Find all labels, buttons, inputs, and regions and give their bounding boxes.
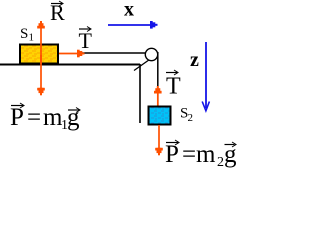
force arrow P1 (weight of S1, down): [37, 55, 45, 95]
svg-text:x: x: [124, 0, 134, 21]
force arrow R (normal reaction, up): [37, 21, 45, 64]
svg-text:1: 1: [29, 32, 35, 44]
svg-text:=: =: [27, 104, 41, 131]
wire: horizontal string from S1 to pulley: [78, 52, 146, 54]
svg-text:2: 2: [217, 155, 224, 170]
svg-text:m: m: [196, 141, 216, 168]
label T vector (on S2): [166, 70, 181, 100]
svg-text:T: T: [79, 28, 93, 53]
wire: vertical string from pulley to S2: [157, 52, 159, 107]
svg-text:P: P: [10, 104, 24, 131]
table top surface: [0, 64, 140, 66]
formula P = m2 g (weight of S2): [165, 140, 237, 170]
block S2: [149, 107, 171, 125]
svg-text:T: T: [166, 74, 181, 100]
formula P = m1 g (weight of S1): [10, 103, 80, 133]
label R vector: [50, 0, 65, 25]
force arrow T on S2 (tension, up): [154, 86, 162, 106]
svg-text:z: z: [190, 49, 199, 71]
label T vector (top): [79, 27, 93, 54]
axis z (blue): [190, 42, 209, 111]
svg-text:P: P: [165, 141, 179, 168]
svg-text:m: m: [43, 104, 63, 131]
svg-text:g: g: [67, 104, 80, 131]
svg-text:2: 2: [188, 112, 194, 124]
label S2: [180, 106, 193, 125]
table right edge: [139, 64, 141, 123]
svg-text:=: =: [182, 141, 196, 168]
label S1: [20, 26, 34, 44]
block S1: [20, 45, 58, 64]
svg-text:S: S: [20, 26, 28, 42]
pulley support bracket: [134, 56, 155, 71]
axis x (blue): [108, 0, 158, 29]
force arrow T on S1 (tension, right): [59, 50, 85, 58]
force arrow P2 (weight of S2, down): [155, 125, 163, 155]
pulley: [145, 48, 157, 60]
